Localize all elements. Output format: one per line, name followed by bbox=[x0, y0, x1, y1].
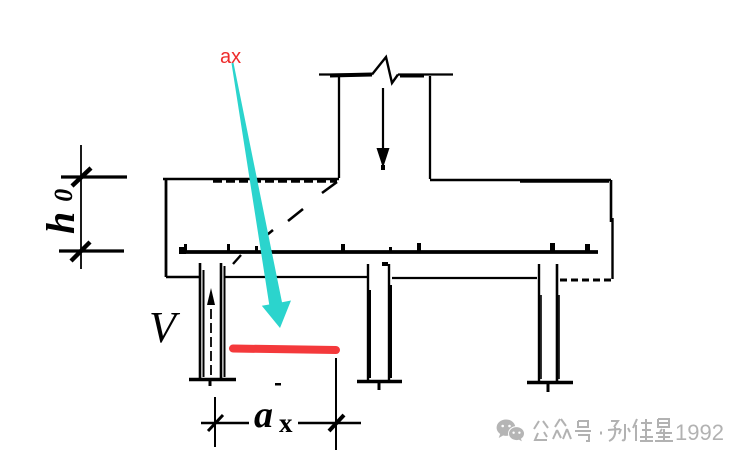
pile cap outline bbox=[163, 179, 613, 280]
svg-text:1992: 1992 bbox=[675, 420, 724, 445]
watermark text bbox=[534, 419, 673, 441]
pile P1 bbox=[189, 263, 236, 386]
red crack line bbox=[233, 349, 336, 351]
佳 bbox=[633, 419, 653, 441]
pile P1 reaction arrow bbox=[207, 288, 215, 375]
svg-text:ax: ax bbox=[220, 46, 241, 68]
pile P3 bbox=[527, 264, 573, 392]
号 bbox=[575, 421, 591, 441]
rebar line bbox=[179, 243, 598, 264]
pile P2 bbox=[357, 264, 402, 390]
孙 bbox=[608, 421, 630, 441]
watermark icon bbox=[497, 419, 525, 442]
星 bbox=[655, 419, 673, 441]
load arrow bbox=[377, 88, 390, 170]
column top break line bbox=[319, 57, 453, 83]
svg-text:x: x bbox=[279, 408, 293, 438]
dot bbox=[600, 432, 602, 435]
column left edge bbox=[338, 76, 340, 178]
cyan annotation arrow bbox=[232, 63, 292, 328]
small artifact dot bbox=[275, 383, 281, 386]
dimension ax bbox=[201, 358, 361, 450]
column right edge bbox=[429, 76, 431, 179]
punching cone dashed diagonal bbox=[262, 182, 337, 239]
众 bbox=[553, 419, 571, 439]
dimension h0 bbox=[59, 145, 127, 269]
公 bbox=[534, 421, 548, 440]
svg-text:a: a bbox=[254, 394, 273, 436]
